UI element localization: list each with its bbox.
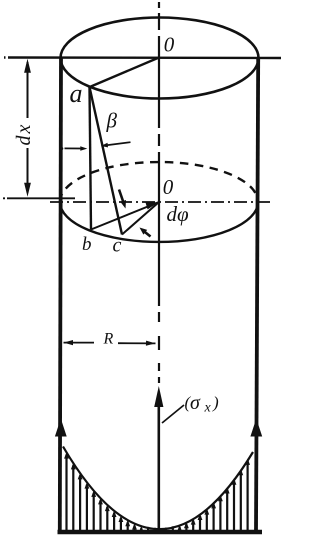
- svg-text:dx: dx: [13, 123, 35, 146]
- centre dash-dot line through O2: [50, 201, 273, 203]
- section ellipse: dashed back half: [60, 162, 258, 202]
- lower extension line for dx dimension: [3, 197, 75, 199]
- generator line a-b: [90, 87, 92, 230]
- dx dimension line with arrows: [27, 62, 29, 193]
- cylinder axis (dashed/solid segments): [158, 2, 160, 383]
- radius O-a on top face: [89, 58, 160, 88]
- svg-text:0: 0: [163, 175, 174, 199]
- right stress arrowhead on cylinder edge: [250, 419, 262, 437]
- svg-text:R: R: [103, 331, 114, 348]
- R dimension arrows: [64, 342, 95, 344]
- beta angle arrow right: [105, 142, 131, 145]
- svg-text:c: c: [113, 235, 122, 257]
- left stress arrowhead on cylinder edge: [55, 419, 67, 437]
- radius O2-c: [122, 202, 159, 235]
- radius O2-b with arrowhead at O2: [91, 202, 159, 230]
- top face ellipse of cylinder: [61, 18, 259, 99]
- bottom base line of stress diagram: [58, 530, 263, 535]
- svg-text:σ: σ: [190, 392, 201, 414]
- svg-text:0: 0: [164, 32, 175, 56]
- leader line to (sigma_x) label: [162, 405, 184, 423]
- svg-text:dφ: dφ: [167, 202, 190, 226]
- svg-text:): ): [212, 393, 219, 412]
- small bold arrow pointing up-left toward c: [143, 231, 151, 237]
- beta angle arrow left: [61, 147, 64, 150]
- svg-text:x: x: [204, 401, 212, 416]
- twisted generator line a-c: [90, 87, 123, 235]
- small bold arrow pointing down toward c region: [119, 190, 124, 205]
- stress distribution curve: [63, 447, 253, 530]
- svg-text:a: a: [70, 79, 83, 108]
- top extension/diameter line: [4, 56, 281, 59]
- left cylinder side line: [60, 58, 61, 531]
- stress hatch arrows right half: [166, 458, 250, 531]
- section ellipse: solid front half: [60, 202, 258, 242]
- stress hatch arrows left half: [64, 452, 155, 532]
- svg-text:b: b: [82, 234, 92, 255]
- axis arrow for sigma_x and lower axis line: [154, 386, 163, 407]
- svg-text:β: β: [106, 109, 118, 133]
- right cylinder side line: [256, 57, 258, 531]
